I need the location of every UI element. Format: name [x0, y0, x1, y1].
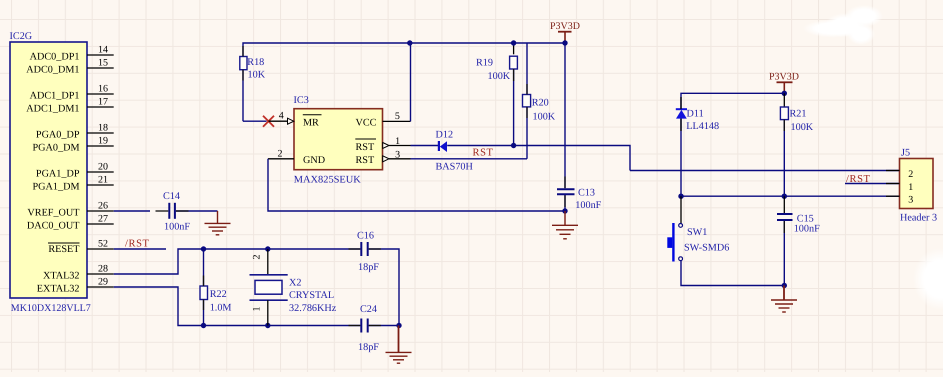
pin 18 PGA0_DP [36, 123, 114, 141]
wire R20 bottom to RST wire [526, 107, 528, 159]
wire R19 bottom [513, 69, 515, 146]
svg-text:28: 28 [98, 264, 108, 275]
pin 2 of J5 [886, 169, 913, 180]
svg-text:26: 26 [98, 201, 108, 212]
pin 4 MR input [269, 111, 322, 129]
svg-text:100K: 100K [488, 71, 511, 82]
resistor R19 [476, 43, 517, 82]
svg-text:R20: R20 [532, 98, 549, 109]
svg-text:IC3: IC3 [294, 95, 309, 106]
svg-text:ADC0_DM1: ADC0_DM1 [26, 65, 79, 76]
svg-text:4: 4 [279, 111, 284, 122]
wire C14 to ground [176, 210, 218, 212]
svg-text:C13: C13 [578, 187, 595, 198]
pin 27 DAC0_OUT [27, 214, 114, 232]
svg-text:1: 1 [908, 182, 913, 193]
svg-text:RST: RST [356, 142, 375, 153]
mcu IC2G body [10, 42, 87, 298]
power port P3V3D right [769, 72, 799, 94]
svg-text:P3V3D: P3V3D [550, 21, 580, 32]
pin 2 GND [268, 148, 325, 166]
svg-text:3: 3 [395, 149, 400, 160]
svg-text:PGA0_DP: PGA0_DP [36, 130, 80, 141]
SECTION: supervisor IC3 area [240, 21, 630, 239]
diode D12 BAS70H [436, 129, 474, 172]
svg-text:J5: J5 [901, 148, 910, 159]
junction crystal bottom [265, 323, 270, 328]
capacitor C15 [777, 196, 820, 234]
svg-text:16: 16 [98, 84, 108, 95]
resistor R18 [240, 57, 266, 81]
pin 28 XTAL32 [43, 264, 114, 282]
wire C15 bottom [783, 221, 785, 286]
wire top right rail [681, 93, 784, 109]
svg-text:SW1: SW1 [687, 227, 707, 238]
svg-text:18pF: 18pF [358, 262, 379, 273]
resistor R22 [200, 249, 231, 326]
ground at crystal [386, 326, 412, 364]
wire J5 pin1 stub [845, 183, 900, 185]
svg-text:EXTAL32: EXTAL32 [37, 284, 80, 295]
junction R21/C15 [782, 194, 787, 199]
wire C16 right to drop [369, 249, 399, 326]
switch SW1 SW-SMD6 [667, 196, 729, 261]
svg-text:LL4148: LL4148 [686, 121, 719, 132]
svg-text:P3V3D: P3V3D [769, 72, 799, 83]
svg-text:15: 15 [98, 58, 108, 69]
svg-text:D11: D11 [687, 108, 704, 119]
svg-text:VREF_OUT: VREF_OUT [27, 208, 80, 219]
svg-text:MAX825SEUK: MAX825SEUK [294, 175, 362, 186]
SECTION: right area [630, 72, 937, 313]
svg-text:XTAL32: XTAL32 [43, 271, 80, 282]
svg-text:2: 2 [252, 255, 263, 260]
pin 29 EXTAL32 [37, 277, 114, 295]
wire diode to right [447, 146, 630, 171]
svg-text:PGA1_DP: PGA1_DP [36, 169, 80, 180]
white smudge artifact top right [803, 5, 883, 45]
pin 14 ADC0_DP1 [30, 45, 114, 63]
junction D12/R19 [511, 143, 516, 148]
junction R22 bottom [201, 323, 206, 328]
pin 1 RST(bar) output [355, 136, 410, 153]
ground bottom right [771, 286, 797, 313]
svg-text:RESET: RESET [48, 244, 80, 255]
pin 19 PGA0_DM [33, 136, 114, 154]
svg-text:R18: R18 [247, 57, 264, 68]
pin 52 RESET (active low) [48, 239, 114, 255]
svg-text:MR: MR [303, 117, 319, 128]
svg-text:RST: RST [473, 148, 494, 159]
wire VCC riser [410, 43, 412, 121]
svg-text:ADC1_DM1: ADC1_DM1 [26, 104, 79, 115]
op IC3 body [294, 109, 383, 170]
wire SW1 bottom [681, 261, 784, 286]
junction C13 gnd [562, 208, 567, 213]
svg-text:27: 27 [98, 214, 108, 225]
wire pin26 to C14 [114, 210, 150, 212]
wire R21 bottom [783, 120, 785, 197]
svg-text:BAS70H: BAS70H [436, 161, 474, 172]
svg-text:SW-SMD6: SW-SMD6 [684, 242, 729, 253]
svg-text:/RST: /RST [125, 238, 150, 249]
wire lower rail to J5 pin3 [681, 195, 900, 197]
junction R22 top [201, 246, 206, 251]
pin 1 of J5 [886, 182, 913, 193]
svg-text:52: 52 [98, 239, 108, 250]
wire C13 bottom [564, 194, 566, 211]
junction rail R19 [511, 40, 516, 45]
svg-text:CRYSTAL: CRYSTAL [289, 290, 334, 301]
pin 20 PGA1_DP [36, 162, 114, 180]
svg-text:R19: R19 [476, 58, 493, 69]
ground at C14 [205, 211, 231, 235]
wire top rail P3V3D [243, 43, 565, 121]
wire C24 right [369, 325, 399, 327]
pin 21 PGA1_DM [33, 175, 114, 193]
wire IC3 GND to C13 [268, 159, 565, 211]
svg-text:1.0M: 1.0M [210, 303, 232, 314]
wire pin52 stub [114, 248, 166, 250]
svg-text:IC2G: IC2G [10, 31, 33, 42]
svg-text:GND: GND [303, 155, 325, 166]
pin 15 ADC0_DM1 [26, 58, 113, 76]
SECTION: crystal area [114, 231, 412, 364]
svg-text:D12: D12 [436, 129, 454, 140]
svg-text:ADC0_DP1: ADC0_DP1 [30, 52, 80, 63]
svg-text:100nF: 100nF [794, 223, 820, 234]
svg-text:100K: 100K [791, 122, 814, 133]
pin 5 VCC [356, 111, 411, 128]
svg-text:1: 1 [252, 307, 263, 312]
connector J5 body [900, 159, 934, 209]
junction P3V3D rail [782, 91, 787, 96]
svg-text:100nF: 100nF [164, 222, 190, 233]
junction crystal top [265, 246, 270, 251]
svg-text:3: 3 [908, 194, 913, 205]
svg-text:19: 19 [98, 136, 108, 147]
svg-text:Header 3: Header 3 [900, 213, 937, 224]
junction bottom right [782, 283, 787, 288]
svg-text:29: 29 [98, 277, 108, 288]
svg-text:21: 21 [98, 175, 108, 186]
junction VCC rail [407, 40, 412, 45]
svg-text:1: 1 [395, 136, 400, 147]
svg-text:X2: X2 [289, 277, 301, 288]
svg-text:DAC0_OUT: DAC0_OUT [27, 221, 80, 232]
svg-text:17: 17 [98, 97, 108, 108]
svg-text:MK10DX128VLL7: MK10DX128VLL7 [11, 303, 91, 314]
capacitor C24 [358, 304, 379, 353]
capacitor C13 [557, 187, 602, 210]
wire pin29 EXTAL32 [114, 287, 361, 326]
pin 3 RST output [356, 149, 411, 166]
wire pin3 RST [411, 158, 528, 160]
svg-text:14: 14 [98, 45, 108, 56]
junction D11/SW1 [678, 194, 683, 199]
svg-text:C24: C24 [360, 304, 377, 315]
junction rail end [562, 40, 567, 45]
capacitor C14 [163, 191, 190, 233]
svg-text:2: 2 [908, 169, 913, 180]
svg-text:10K: 10K [248, 70, 266, 81]
svg-text:32.786KHz: 32.786KHz [289, 303, 337, 314]
pin 16 ADC1_DP1 [30, 84, 114, 102]
pin 3 of J5 [886, 194, 913, 205]
svg-text:2: 2 [278, 148, 283, 159]
capacitor C16 [357, 231, 379, 274]
power port P3V3D top [550, 21, 580, 43]
svg-text:R21: R21 [790, 108, 807, 119]
white blob artifact [913, 248, 943, 310]
svg-text:18: 18 [98, 123, 108, 134]
svg-text:VCC: VCC [356, 117, 377, 128]
SECTION: IC2G microcontroller [10, 31, 231, 314]
junction caps common [396, 323, 401, 328]
pin 26 VREF_OUT [27, 201, 113, 219]
svg-text:R22: R22 [210, 289, 227, 300]
diode D11 LL4148 [676, 108, 719, 132]
svg-text:C14: C14 [163, 191, 180, 202]
svg-text:20: 20 [98, 162, 108, 173]
wire pin1 to diode [411, 145, 439, 147]
ground at C13 [552, 211, 578, 239]
svg-text:18pF: 18pF [358, 342, 379, 353]
svg-text:5: 5 [395, 111, 400, 122]
svg-text:100K: 100K [533, 112, 556, 123]
svg-text:RST: RST [356, 155, 375, 166]
svg-text:PGA0_DM: PGA0_DM [33, 143, 80, 154]
no-ERC cross at pin 4 [263, 116, 274, 127]
resistor R21 [780, 93, 813, 133]
crystal X2 [250, 249, 337, 326]
wire R18 to MR pin [243, 120, 267, 122]
svg-text:C16: C16 [357, 231, 374, 242]
wire C13 riser [564, 43, 566, 188]
wire cap pin stubs (black) [156, 46, 785, 326]
svg-text:100nF: 100nF [575, 200, 601, 211]
svg-text:ADC1_DP1: ADC1_DP1 [30, 91, 80, 102]
resistor R20 [523, 43, 556, 123]
wire D11 to lower rail [680, 119, 682, 197]
wire pin28 XTAL32 [114, 249, 361, 274]
pin 17 ADC1_DM1 [26, 97, 113, 115]
wire RST long run to J5 pin2 [630, 170, 900, 172]
svg-text:PGA1_DM: PGA1_DM [33, 182, 80, 193]
